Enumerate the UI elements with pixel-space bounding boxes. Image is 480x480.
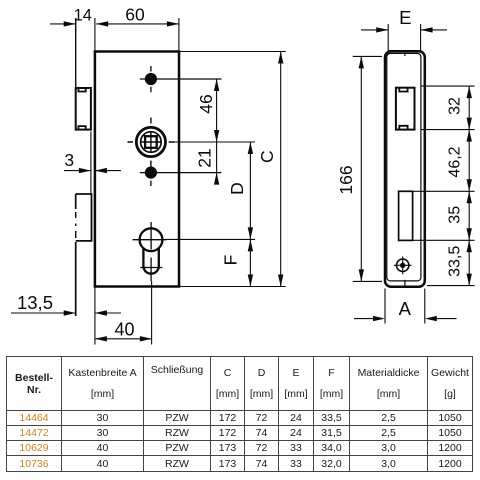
svg-text:46,2: 46,2 bbox=[447, 146, 464, 177]
svg-text:33,5: 33,5 bbox=[447, 246, 464, 277]
svg-text:3: 3 bbox=[64, 150, 74, 170]
extension line cylinder centre bbox=[166, 238, 255, 240]
dimension E bbox=[361, 29, 388, 31]
dimension 40 bbox=[95, 338, 152, 340]
top screw hole bbox=[145, 66, 157, 92]
bottom screw hole bbox=[145, 167, 157, 187]
specification table bbox=[6, 356, 473, 472]
deadbolt cutout bbox=[76, 194, 92, 241]
svg-text:D: D bbox=[227, 182, 247, 195]
svg-text:166: 166 bbox=[336, 165, 356, 194]
svg-text:A: A bbox=[399, 298, 412, 319]
svg-text:60: 60 bbox=[125, 5, 145, 25]
dimension 13,5 bbox=[11, 312, 76, 314]
svg-text:40: 40 bbox=[114, 320, 134, 340]
body bottom edge extension bbox=[179, 286, 286, 288]
lock body front view bbox=[95, 52, 179, 287]
svg-text:E: E bbox=[399, 7, 411, 28]
screw hole side view bbox=[394, 256, 412, 274]
dimension line 32 46,2 35 33,5 bbox=[468, 86, 470, 286]
svg-text:46: 46 bbox=[196, 94, 216, 113]
svg-text:32: 32 bbox=[447, 97, 464, 115]
faceplate seam ticks bbox=[404, 50, 406, 288]
faceplate left edge bbox=[75, 18, 77, 89]
extension line bottom screw bbox=[140, 172, 222, 174]
extension line follower centre bbox=[169, 141, 256, 143]
dimension line 46 and 21 bbox=[216, 79, 218, 182]
dimension 60 bbox=[96, 23, 179, 25]
faceplate right edge extension lines bbox=[94, 18, 96, 345]
side view outer plate bbox=[385, 51, 425, 286]
dimension 14 bbox=[50, 23, 76, 25]
svg-text:F: F bbox=[221, 255, 241, 266]
dimension 166 bbox=[360, 56, 362, 281]
latch cutout spool bbox=[76, 88, 91, 130]
body top edge extension bbox=[179, 51, 286, 53]
faceplate left edge hidden dash-dot bbox=[75, 212, 77, 238]
follower hub bbox=[128, 118, 175, 167]
extension line top screw bbox=[140, 78, 222, 80]
dimension 3 bbox=[64, 170, 91, 172]
follower hub spool side view bbox=[396, 88, 415, 130]
euro profile cylinder hole bbox=[133, 222, 167, 281]
svg-text:13,5: 13,5 bbox=[17, 292, 53, 313]
dimension line D and F bbox=[249, 142, 251, 287]
side view inner contour bbox=[387, 53, 421, 281]
svg-text:C: C bbox=[257, 150, 277, 163]
dimension line C bbox=[280, 52, 282, 287]
dimension A bbox=[354, 318, 457, 320]
right side extension lines bbox=[414, 86, 475, 286]
svg-text:21: 21 bbox=[195, 148, 215, 167]
latch slot side view bbox=[399, 191, 413, 240]
svg-text:14: 14 bbox=[74, 7, 92, 25]
svg-text:35: 35 bbox=[447, 206, 464, 224]
